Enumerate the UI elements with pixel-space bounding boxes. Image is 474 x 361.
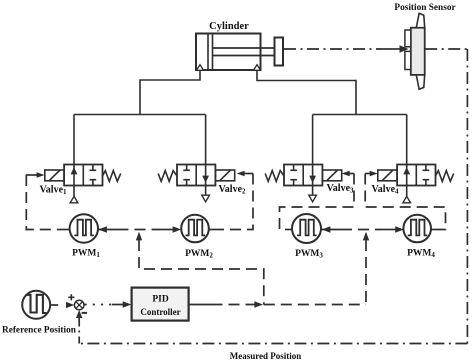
- wire control branch to PWM3-4 bus (dashed): [365, 240, 367, 305]
- wire PID output dashed: [212, 304, 255, 306]
- arrow up into PWM1-2 bus: [136, 232, 142, 241]
- feedback arrow into summing junction: [78, 316, 80, 326]
- svg-text:Cylinder: Cylinder: [209, 21, 249, 32]
- wire summing junction to PID (dash-dot): [85, 304, 113, 306]
- valve V3 blocked port symbols: [290, 165, 297, 186]
- arrow into branch node: [254, 301, 263, 307]
- valve V1 exhaust triangle: [70, 196, 78, 203]
- arrow into PID controller: [112, 304, 124, 306]
- valve V3 solenoid: [322, 170, 341, 181]
- valve V4 solenoid: [378, 170, 397, 181]
- cylinder: [196, 34, 283, 71]
- valve V2 solenoid: [215, 170, 234, 181]
- valve V1 return spring: [103, 171, 121, 182]
- wire left manifold header: [74, 114, 206, 116]
- PWM1 block: [70, 214, 98, 242]
- svg-text:Valve2: Valve2: [218, 184, 246, 196]
- position sensor: [405, 13, 425, 89]
- svg-text:Valve1: Valve1: [39, 185, 67, 197]
- valve V2 exhaust triangle (down): [202, 195, 210, 202]
- wire bottom measured-position dash-dot: [79, 343, 467, 345]
- PWM4 block: [403, 215, 431, 243]
- PID controller label: [140, 295, 180, 317]
- valve V2 flow path arrow (open, down): [205, 165, 207, 186]
- valve V3 body squares: [284, 165, 322, 186]
- valve V1 control arrow: [26, 174, 37, 176]
- arrow up into PWM3-4 bus: [363, 232, 369, 241]
- wire manifold to valve3: [312, 115, 314, 165]
- wire right manifold header: [313, 114, 407, 116]
- valve V3 control arrow: [350, 173, 355, 175]
- svg-text:Measured Position: Measured Position: [230, 351, 302, 361]
- wire control branch to PWM1-2 bus (dashed): [139, 240, 264, 305]
- PID controller block: [132, 288, 189, 321]
- arrow into PWM3: [322, 229, 341, 231]
- svg-text:Position Sensor: Position Sensor: [394, 3, 455, 13]
- valve V4 exhaust line: [406, 186, 408, 197]
- wire P1 to left manifold: [140, 70, 200, 114]
- plus sign: [68, 294, 74, 300]
- wire PID output solid: [189, 304, 212, 306]
- svg-text:PID: PID: [152, 295, 169, 305]
- svg-text:Controller: Controller: [140, 307, 180, 317]
- wire PWM3 to valve V3 (dashed): [280, 174, 355, 230]
- wire rod to sensor dash-dot: [284, 48, 387, 50]
- valve V4 blocked port symbols: [423, 165, 430, 186]
- svg-text:PWM1: PWM1: [72, 249, 100, 260]
- PWM3 block: [292, 214, 321, 243]
- valve V2 return spring: [158, 171, 177, 182]
- svg-text:PWM3: PWM3: [295, 249, 323, 260]
- valve V1 solenoid: [45, 170, 64, 181]
- wire feedback riser dash-dot: [78, 326, 80, 344]
- valve V2 body squares: [177, 165, 215, 186]
- cylinder port P1 triangle: [196, 65, 203, 71]
- arrow into sensor: [387, 48, 401, 50]
- valve V4 return spring: [436, 171, 454, 182]
- wire manifold to valve4: [406, 115, 408, 165]
- cylinder port P2 triangle: [253, 65, 260, 71]
- valve V3 exhaust triangle (down): [309, 195, 317, 202]
- valve V3 return spring: [265, 171, 284, 182]
- valve V2 blocked port symbols: [183, 165, 190, 186]
- arrow into PWM4: [382, 229, 395, 231]
- wire PWM3-PWM4 bus (dashed): [341, 229, 382, 231]
- valve V1 exhaust line: [73, 186, 75, 197]
- valve V3 flow path arrow (open, down): [312, 165, 314, 186]
- summing junction: [74, 300, 84, 310]
- valve V2 control arrow: [245, 173, 254, 175]
- valve V1 blocked port symbols: [90, 165, 97, 186]
- valve V2 exhaust line: [205, 186, 207, 196]
- wire PWM1 to valve V1 (dashed): [26, 175, 58, 230]
- reference position source: [22, 291, 50, 319]
- valve V1 flow path arrow (open): [73, 165, 75, 186]
- valve V4 body squares: [397, 165, 435, 186]
- PWM2 block: [181, 215, 209, 243]
- valve V3 exhaust line: [312, 186, 314, 196]
- arrow into PWM1: [98, 229, 117, 231]
- svg-text:PWM2: PWM2: [185, 249, 213, 260]
- svg-text:PWM4: PWM4: [407, 249, 435, 260]
- wire PWM2 to valve V2 (dashed): [219, 174, 253, 230]
- wire manifold to valve2: [205, 115, 207, 165]
- valve V4 flow path arrow (open): [406, 165, 408, 186]
- valve V4 control arrow: [365, 173, 370, 175]
- wire reference to summing junction: [50, 304, 58, 306]
- wire PWM4 to valve V4 (dashed): [365, 174, 445, 230]
- arrow into summing junction: [66, 302, 74, 308]
- valve V1 body squares: [64, 165, 102, 186]
- arrow into PWM2: [160, 229, 173, 231]
- wire manifold to valve1: [73, 115, 75, 165]
- valve V4 exhaust triangle: [403, 196, 411, 203]
- wire PWM1-PWM2 bus (dashed): [118, 229, 161, 231]
- svg-text:Valve3: Valve3: [326, 183, 354, 195]
- wire P2 to right manifold: [257, 70, 356, 114]
- minus sign: [82, 312, 87, 314]
- wire right edge vertical dash-dot: [466, 49, 468, 344]
- svg-text:Reference Position: Reference Position: [2, 325, 77, 335]
- wire PID output to branches (dashed): [264, 304, 366, 306]
- svg-text:Valve4: Valve4: [371, 184, 399, 196]
- wire sensor to right edge dash-dot: [425, 48, 467, 50]
